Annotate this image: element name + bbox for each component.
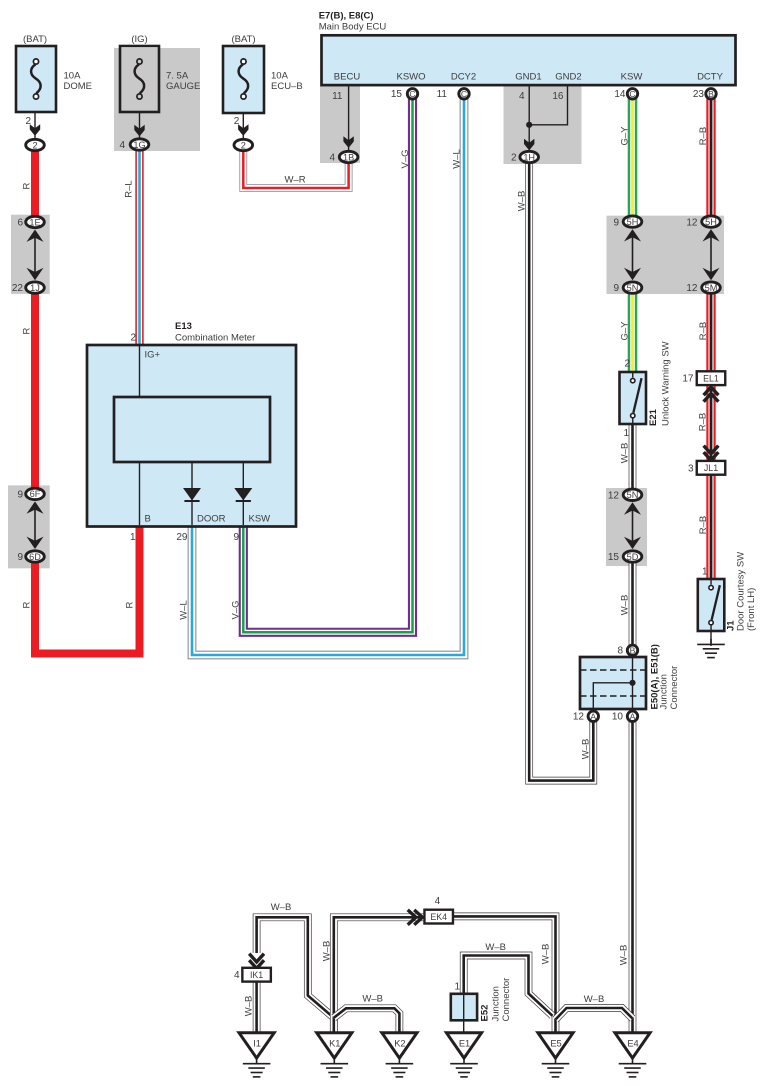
svg-text:1: 1 xyxy=(702,567,708,578)
E21 labels xyxy=(648,341,672,426)
shield block around fuse GAUGE / 1G xyxy=(114,48,200,151)
svg-text:V–G: V–G xyxy=(400,149,411,168)
shield block BECU pin 1B xyxy=(320,86,360,163)
svg-text:2: 2 xyxy=(130,333,136,344)
svg-text:(Front LH): (Front LH) xyxy=(746,588,757,631)
wire W-B junction pin 10 to E4 xyxy=(629,722,637,1033)
svg-text:4: 4 xyxy=(119,140,125,151)
connector IK1 xyxy=(242,968,271,982)
value label 10A DOME xyxy=(64,71,93,93)
svg-text:A: A xyxy=(590,711,596,721)
svg-text:7. 5A: 7. 5A xyxy=(166,71,189,82)
svg-text:W–B: W–B xyxy=(541,944,552,965)
svg-text:11: 11 xyxy=(332,91,343,102)
svg-text:4: 4 xyxy=(329,152,335,163)
svg-text:C: C xyxy=(629,89,635,99)
fuse 10A ECU-B xyxy=(223,46,264,113)
svg-text:9: 9 xyxy=(613,283,619,294)
svg-text:1E: 1E xyxy=(29,217,40,227)
wire W-B E21 to 5N xyxy=(629,423,637,490)
meter inner block xyxy=(114,397,270,462)
wire W-B IK1 to I1 xyxy=(253,981,261,1033)
svg-text:W–B: W–B xyxy=(362,993,383,1004)
connector pin KSW C xyxy=(627,89,637,99)
svg-text:W–B: W–B xyxy=(517,191,528,212)
shield block 1E/1J pair xyxy=(11,215,50,294)
wire ECU pin GND2 lead xyxy=(529,84,567,125)
ground E1 symbol xyxy=(450,1058,478,1077)
splice arrow fuse GAUGE xyxy=(134,125,144,137)
svg-text:E21: E21 xyxy=(648,408,659,426)
value label 7.5A GAUGE xyxy=(166,71,200,93)
wire R-B JL1 to door courtesy switch xyxy=(706,475,715,581)
svg-text:10A: 10A xyxy=(271,71,289,82)
ground K2 symbol xyxy=(386,1058,414,1077)
wire W-B IK1 to K1 xyxy=(257,917,334,1033)
svg-text:G–Y: G–Y xyxy=(620,126,631,146)
svg-text:E13: E13 xyxy=(175,321,192,332)
svg-text:KSWO: KSWO xyxy=(396,72,425,83)
wire R-B 5M to EL1 xyxy=(706,293,715,372)
svg-text:JL1: JL1 xyxy=(704,463,718,473)
ground E5 symbol xyxy=(542,1058,570,1077)
chevron arrows JL1 down xyxy=(704,446,719,461)
svg-text:R–B: R–B xyxy=(698,516,709,534)
wire W-B K1 to EK4 xyxy=(334,917,424,1033)
svg-text:GND2: GND2 xyxy=(555,72,581,83)
wire W-B E5 to E4 xyxy=(556,1008,633,1020)
svg-text:23: 23 xyxy=(693,89,705,100)
svg-text:R: R xyxy=(125,601,136,608)
svg-text:B: B xyxy=(708,89,714,99)
svg-text:12: 12 xyxy=(608,490,620,501)
ground triangle E5 xyxy=(538,1033,573,1058)
svg-text:15: 15 xyxy=(608,552,620,563)
shield block 5N/5D pair xyxy=(606,488,647,566)
svg-text:5H: 5H xyxy=(705,217,717,227)
ground triangle E1 xyxy=(446,1033,481,1058)
svg-text:K2: K2 xyxy=(394,1038,405,1048)
svg-text:6D: 6D xyxy=(29,552,41,562)
splice arrow fuse ECU-B xyxy=(238,124,248,136)
chevron arrows IK1 down xyxy=(249,954,264,969)
svg-text:3: 3 xyxy=(688,463,694,474)
svg-text:9: 9 xyxy=(17,489,23,500)
splice arrow fuse DOME xyxy=(30,124,40,136)
wire W-B EK4 to E5 xyxy=(453,916,556,1033)
fuse 10A DOME xyxy=(16,46,56,112)
pin IG+ lead xyxy=(139,345,141,397)
svg-text:1: 1 xyxy=(454,982,460,993)
svg-text:R: R xyxy=(22,327,33,334)
svg-text:W–B: W–B xyxy=(619,945,630,966)
svg-text:E5: E5 xyxy=(550,1038,561,1048)
svg-text:E7(B), E8(C): E7(B), E8(C) xyxy=(319,11,374,22)
svg-text:2: 2 xyxy=(32,140,37,150)
connector 2 (fuse ECU-B) xyxy=(234,139,253,150)
switch E21 Unlock Warning SW xyxy=(620,372,647,424)
wire G-Y 5N to unlock warning switch xyxy=(628,293,638,373)
svg-text:12: 12 xyxy=(686,218,698,229)
svg-text:E1: E1 xyxy=(459,1038,470,1048)
wire fuse ECU-B lead to splice xyxy=(242,113,244,140)
svg-text:Unlock Warning SW: Unlock Warning SW xyxy=(661,341,672,426)
svg-text:I1: I1 xyxy=(253,1038,261,1048)
wire R-B EL1 to JL1 xyxy=(706,385,715,461)
svg-text:5D: 5D xyxy=(627,552,639,562)
wire R 6D to combination meter pin 1 xyxy=(35,525,140,654)
ground J1 xyxy=(697,639,725,658)
pin DOOR lead xyxy=(191,462,193,525)
connector pin B (junction pin 8) xyxy=(627,645,637,655)
svg-text:W–B: W–B xyxy=(620,443,631,464)
wire E52 to E1 xyxy=(463,1020,465,1033)
wire W-B E52 to E5 xyxy=(464,956,553,1016)
connector EK4 xyxy=(424,910,453,924)
svg-text:2: 2 xyxy=(241,140,246,150)
ECU U1 Main Body ECU box xyxy=(322,35,736,85)
svg-text:EK4: EK4 xyxy=(430,912,447,922)
svg-text:12: 12 xyxy=(686,283,698,294)
link arrow 5H-5M xyxy=(703,229,720,280)
svg-text:W–B: W–B xyxy=(271,902,292,913)
link arrow 5H-5N xyxy=(624,229,641,280)
svg-text:1J: 1J xyxy=(30,283,40,293)
svg-text:1B: 1B xyxy=(343,152,354,162)
meter E13 box xyxy=(87,345,296,527)
svg-text:4: 4 xyxy=(435,896,441,907)
svg-text:16: 16 xyxy=(552,91,564,102)
svg-text:W–R: W–R xyxy=(284,175,305,186)
svg-text:R: R xyxy=(22,601,33,608)
svg-text:B: B xyxy=(145,514,151,525)
svg-text:GND1: GND1 xyxy=(515,72,541,83)
svg-text:(BAT): (BAT) xyxy=(231,34,255,45)
svg-text:KSW: KSW xyxy=(621,72,643,83)
svg-text:E52: E52 xyxy=(480,1005,491,1022)
svg-text:IK1: IK1 xyxy=(250,970,263,980)
link arrow 1E-1J xyxy=(27,230,44,281)
svg-text:(IG): (IG) xyxy=(131,34,147,45)
shield block 6F/6D pair xyxy=(8,485,50,568)
svg-text:G–Y: G–Y xyxy=(620,321,631,341)
wire door courtesy switch to ground xyxy=(710,631,712,646)
svg-text:6F: 6F xyxy=(30,489,41,499)
svg-text:W–B: W–B xyxy=(485,942,506,953)
svg-text:EL1: EL1 xyxy=(703,373,719,383)
link arrow 5N-5D xyxy=(624,502,641,549)
E13 title xyxy=(175,321,255,344)
svg-text:2: 2 xyxy=(624,359,630,370)
svg-text:IG+: IG+ xyxy=(145,350,161,361)
svg-text:DOOR: DOOR xyxy=(197,514,226,525)
svg-text:8: 8 xyxy=(617,646,623,657)
svg-text:A: A xyxy=(630,711,636,721)
diode D1 DOOR xyxy=(183,488,201,501)
svg-text:14: 14 xyxy=(614,89,626,100)
diode D2 KSW xyxy=(234,488,252,501)
svg-text:5M: 5M xyxy=(705,283,718,293)
wire R-B DCTY to 5H xyxy=(706,97,715,216)
fuse 7.5A GAUGE xyxy=(120,46,159,112)
svg-text:W–B: W–B xyxy=(244,996,255,1017)
ground triangle K1 xyxy=(317,1033,352,1058)
junction dot GND1/GND2 xyxy=(526,122,532,128)
svg-text:17: 17 xyxy=(682,374,694,385)
svg-text:1G: 1G xyxy=(133,140,145,150)
svg-text:E4: E4 xyxy=(627,1038,638,1048)
wire fuse DOME lead to splice xyxy=(34,112,36,140)
wire W-R fuse ECU-B to 1B xyxy=(243,150,348,188)
pin B lead xyxy=(139,462,141,525)
wire W-B 1H to junction pin 12 xyxy=(529,163,593,781)
svg-text:R–B: R–B xyxy=(698,127,709,145)
svg-text:5N: 5N xyxy=(627,283,639,293)
svg-text:5H: 5H xyxy=(627,217,639,227)
svg-text:(BAT): (BAT) xyxy=(23,34,47,45)
ground I1 symbol xyxy=(243,1058,271,1077)
svg-text:Junction: Junction xyxy=(659,674,670,709)
junction internal dot xyxy=(629,680,635,686)
svg-text:BECU: BECU xyxy=(334,72,361,83)
connector pin KSWO C xyxy=(407,89,417,99)
svg-text:R–B: R–B xyxy=(698,322,709,340)
connector 6D xyxy=(26,551,45,562)
connector 2 (fuse DOME) xyxy=(26,139,45,150)
connector 5N (lower) xyxy=(623,489,642,500)
link arrow 6F-6D xyxy=(27,501,44,549)
chevron arrows EK4 right xyxy=(408,910,423,925)
svg-text:5N: 5N xyxy=(627,490,639,500)
connector 5H (right) xyxy=(702,216,721,227)
wire ECU pin GND1 lead xyxy=(528,84,530,152)
E50/E51 labels xyxy=(650,644,681,709)
connector pin DCY2 C xyxy=(459,89,469,99)
svg-text:W–B: W–B xyxy=(322,941,333,962)
svg-text:4: 4 xyxy=(234,970,240,981)
wire G-Y KSW to 5H xyxy=(628,97,638,216)
ground E4 symbol xyxy=(619,1058,647,1077)
J1 labels xyxy=(726,552,757,631)
svg-text:Main Body ECU: Main Body ECU xyxy=(319,22,387,33)
connector 5M xyxy=(702,282,721,293)
wire V-G KSW to KSWO xyxy=(243,97,412,632)
shield block 5H/5N 5H/5M pairs xyxy=(607,216,725,294)
svg-text:22: 22 xyxy=(12,283,24,294)
svg-text:29: 29 xyxy=(176,532,188,543)
ground triangle K2 xyxy=(382,1033,417,1058)
connector 5N (upper) xyxy=(623,282,642,293)
connector EL1 xyxy=(697,371,726,385)
switch J1 Door Courtesy SW xyxy=(698,579,725,631)
svg-text:9: 9 xyxy=(613,218,619,229)
svg-text:11: 11 xyxy=(437,89,448,100)
svg-text:W–B: W–B xyxy=(620,595,631,616)
svg-text:Junction: Junction xyxy=(490,986,501,1021)
svg-text:K1: K1 xyxy=(329,1038,340,1048)
svg-text:9: 9 xyxy=(17,552,23,563)
connector JL1 xyxy=(697,461,726,475)
svg-text:W–L: W–L xyxy=(452,149,463,169)
svg-text:ECU–B: ECU–B xyxy=(271,81,303,92)
pin KSW lead xyxy=(242,462,244,525)
svg-text:2: 2 xyxy=(511,152,517,163)
wire W-B K1 to K2 xyxy=(334,1008,400,1033)
svg-text:DCY2: DCY2 xyxy=(451,72,476,83)
connector 6F xyxy=(26,488,45,499)
junction connector E50(A) E51(B) box xyxy=(580,657,646,709)
connector 5D xyxy=(623,551,642,562)
shield block GND pins 1H xyxy=(504,86,582,164)
svg-text:1: 1 xyxy=(623,428,629,439)
connector pin A (junction pin 10) xyxy=(627,711,637,721)
E52 internal lead xyxy=(463,994,465,1021)
svg-text:9: 9 xyxy=(233,532,239,543)
svg-text:Door Courtesy SW: Door Courtesy SW xyxy=(735,552,746,631)
svg-text:15: 15 xyxy=(391,89,403,100)
svg-text:C: C xyxy=(409,89,415,99)
wire W-B 5D to junction connector pin 8 xyxy=(629,562,637,645)
svg-text:C: C xyxy=(461,89,467,99)
E52 labels xyxy=(480,978,512,1022)
svg-text:Combination Meter: Combination Meter xyxy=(175,333,255,344)
ECU title E7(B), E8(C) xyxy=(319,11,387,33)
svg-text:R–B: R–B xyxy=(698,413,709,431)
junction internal wire pin8 to pin10 xyxy=(632,656,634,711)
svg-text:KSW: KSW xyxy=(249,514,271,525)
svg-text:GAUGE: GAUGE xyxy=(166,81,200,92)
wire W-L DOOR to DCY2 xyxy=(192,97,464,655)
connector 1G xyxy=(130,139,149,150)
svg-text:6: 6 xyxy=(17,218,23,229)
ground K1 symbol xyxy=(321,1058,349,1077)
connector pin A (junction pin 12) xyxy=(588,711,598,721)
splice arrow GND 1H xyxy=(524,139,534,151)
junction connector E52 box xyxy=(451,994,477,1021)
wire R 1J to 6F xyxy=(31,293,39,489)
wire R-L 1G to IG+ xyxy=(135,150,143,346)
svg-text:DOME: DOME xyxy=(64,81,93,92)
svg-text:DCTY: DCTY xyxy=(697,72,724,83)
splice arrow BECU xyxy=(343,136,353,148)
svg-text:Connector: Connector xyxy=(501,978,512,1022)
wire ECU pin BECU lead xyxy=(348,84,350,152)
connector 1B xyxy=(339,151,358,162)
ground triangle E4 xyxy=(615,1033,650,1058)
svg-text:4: 4 xyxy=(519,91,525,102)
wire fuse GAUGE lead to splice xyxy=(139,112,141,138)
svg-text:R: R xyxy=(22,182,33,189)
connector 1J xyxy=(26,282,45,293)
svg-text:W–B: W–B xyxy=(584,994,605,1005)
connector 1H xyxy=(520,151,539,162)
chevron arrows EL1 up xyxy=(704,387,719,402)
svg-text:V–G: V–G xyxy=(231,600,242,619)
junction internal branch to pin 12 xyxy=(593,683,632,711)
svg-text:B: B xyxy=(630,645,636,655)
ground triangle I1 xyxy=(239,1033,274,1058)
connector 5H (left) xyxy=(623,216,642,227)
svg-text:W–B: W–B xyxy=(581,739,592,760)
connector 1E xyxy=(26,216,45,227)
svg-text:10A: 10A xyxy=(64,71,82,82)
svg-text:W–L: W–L xyxy=(179,600,190,620)
svg-text:1: 1 xyxy=(130,532,136,543)
svg-text:1H: 1H xyxy=(523,152,535,162)
svg-text:10: 10 xyxy=(612,712,624,723)
wire R fuse DOME to 1E xyxy=(31,150,39,217)
value label 10A ECU-B xyxy=(271,71,303,93)
svg-text:12: 12 xyxy=(573,712,585,723)
connector pin DCTY B xyxy=(706,89,716,99)
svg-text:Connector: Connector xyxy=(669,666,680,710)
svg-text:R–L: R–L xyxy=(124,180,135,197)
